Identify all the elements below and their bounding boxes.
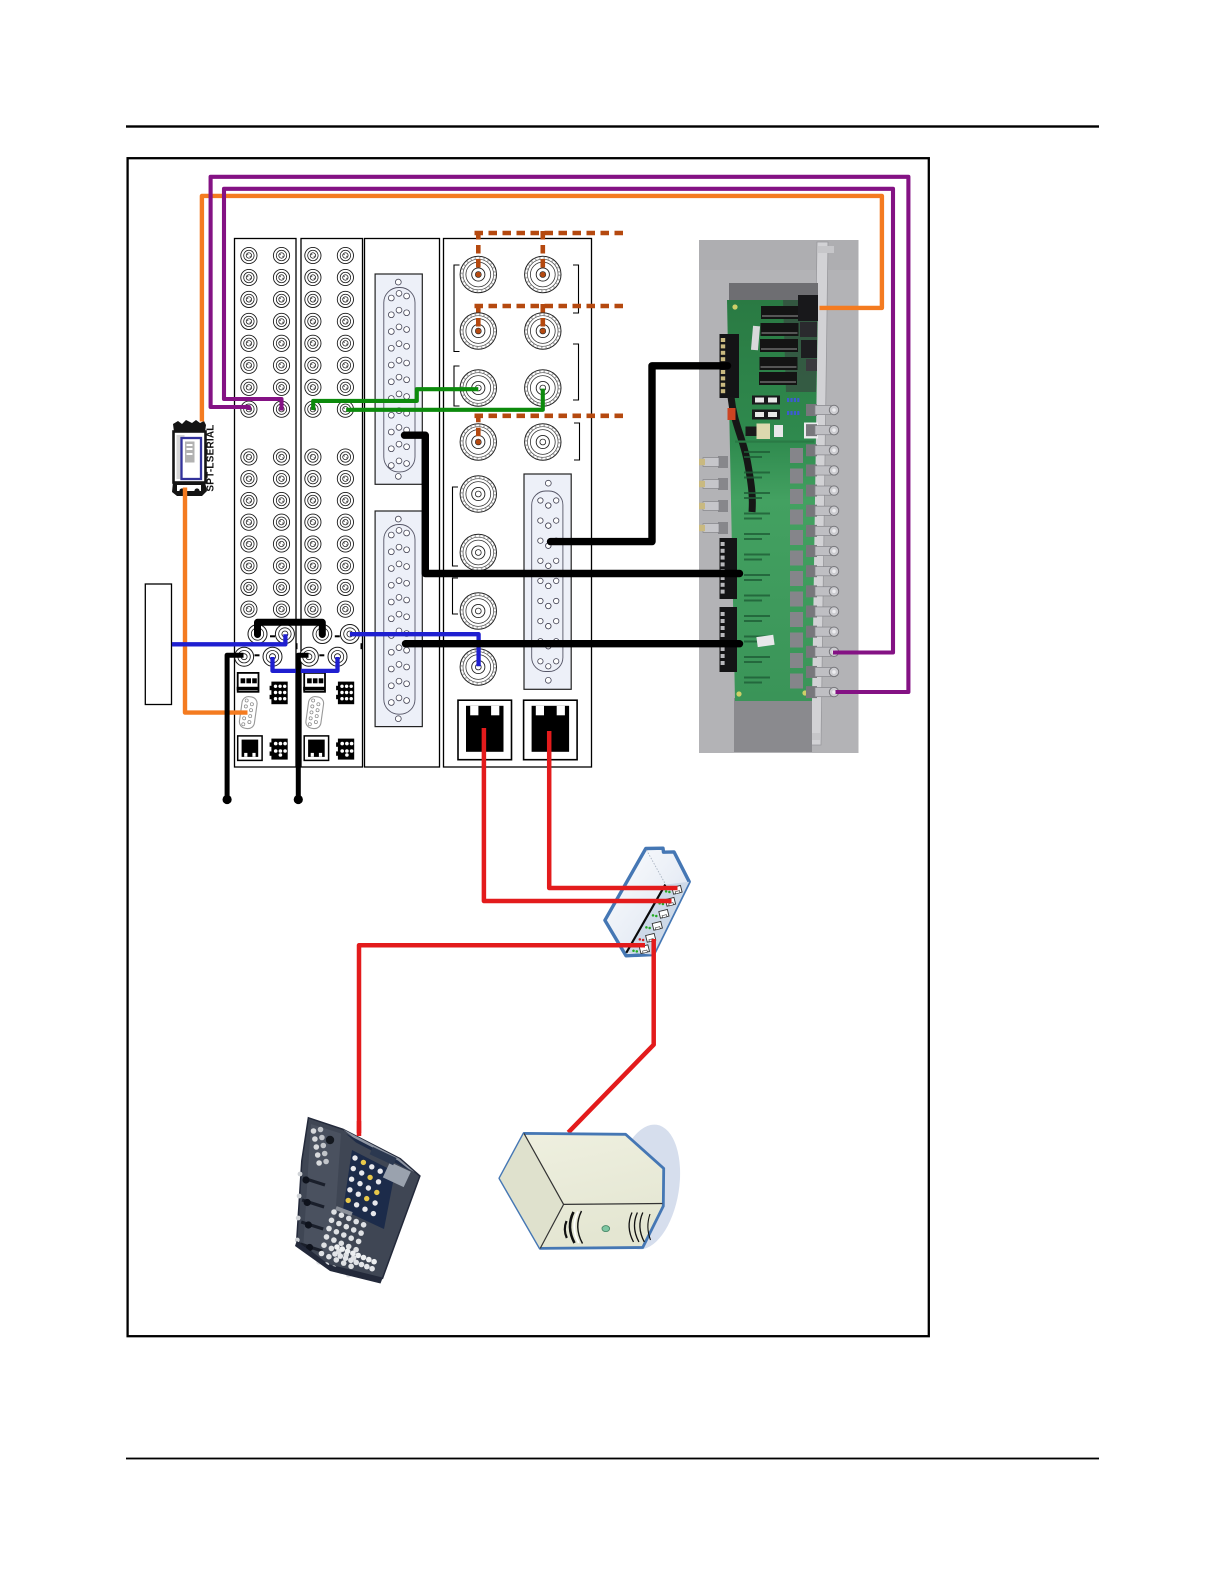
panel P2 DB9 serial connector <box>305 696 324 730</box>
cable: black K4 (P1 row B stub) <box>227 655 243 796</box>
panel P1 power connector <box>237 673 259 692</box>
dashed reference line 2 <box>475 304 625 330</box>
D-sub connector J1 (panel P3 upper) <box>375 274 422 484</box>
wire: black jumper (special row A bridge) <box>258 622 323 634</box>
D-sub connector J2 (panel P3 lower) <box>375 511 422 727</box>
wire: blue cable P2 to P4 BNC <box>350 634 479 666</box>
cable: black K5 (P2 row B stub) <box>298 655 308 796</box>
terminator dot (K5) <box>294 795 303 804</box>
wire: green video cable 2 <box>346 389 543 410</box>
cable: black K2 (P4 J3 to PCB top DB) <box>551 366 728 542</box>
wire: red ethernet R3 end stub over console <box>357 1121 362 1136</box>
wire: purple control cable (outer) <box>211 177 909 692</box>
computer tower (3D box) <box>500 1133 664 1248</box>
video switcher console (photo) <box>295 1118 420 1284</box>
RJ45 jack J4 (panel P4) <box>458 700 512 760</box>
wire: green video cable 1 <box>313 389 478 410</box>
wire: orange serial cable (to P1 DB9) <box>185 488 248 713</box>
panel P1 aux connector (3x3 grid) <box>270 682 288 705</box>
RJ45 jack J5 (panel P4) <box>524 700 578 760</box>
wire: red ethernet R3 (console to hub) <box>359 945 645 1133</box>
large BNC connectors group (P4 lower column) <box>460 476 496 685</box>
panel P2 aux connector (3x3 grid) <box>336 682 354 705</box>
panel P1 DB9 serial connector <box>239 696 258 730</box>
wire: blue jumper (special row B bridge) <box>273 657 338 671</box>
computer shadow <box>606 1120 689 1254</box>
diagram outer frame <box>128 158 929 1336</box>
ethernet hub (3D box) <box>605 848 689 956</box>
group bracket marks (P4) <box>453 265 580 614</box>
terminator dot (K4) <box>223 795 232 804</box>
D-sub connector J3 (panel P4) <box>524 474 571 689</box>
panel P2 RJ45 ethernet jack <box>304 736 328 761</box>
wire: red ethernet R4 (hub to computer) <box>568 939 653 1132</box>
dashed connector dots <box>476 272 546 445</box>
page footer rule <box>126 1458 1099 1460</box>
panel P1 RJ45 ethernet jack <box>238 736 262 761</box>
wire: red ethernet R2 (P4 jack to hub port 1) <box>549 731 677 888</box>
panel P1 (dual BNC I/O module) <box>235 239 298 768</box>
panel P2 (dual BNC I/O module) <box>299 239 362 768</box>
cable: black K1 (P3 J1 to PCB DB) <box>405 435 740 573</box>
panel P3 (dual D-sub module) <box>365 239 440 768</box>
callout label box <box>145 584 171 705</box>
dashed reference line 3 <box>475 414 627 441</box>
wire: purple control cable (inner) <box>224 189 893 653</box>
panel P2 aux connector (3x2 grid) <box>336 739 354 760</box>
wire: blue cable from callout to P1 <box>172 634 286 644</box>
page header rule <box>126 125 1099 127</box>
svg-text:SPT-LSERIAL: SPT-LSERIAL <box>206 424 217 491</box>
router frame PCB (photo) <box>699 240 859 753</box>
panel P1 aux connector (3x2 grid) <box>270 739 288 760</box>
wire: red ethernet R1 (P4 jack to hub port 2) <box>484 728 672 901</box>
panel P4 (analog video module) <box>444 239 592 768</box>
panel P2 power connector <box>303 673 325 692</box>
dashed reference line 1 <box>475 231 625 273</box>
wire: orange serial cable (top run to PCB) <box>202 196 882 422</box>
large BNC connectors group (P4 top, 2x4) <box>460 256 561 460</box>
SPT-LSERIAL adapter <box>172 420 207 496</box>
cable: black K3 (P3 J2 to PCB bottom DB) <box>406 640 740 647</box>
